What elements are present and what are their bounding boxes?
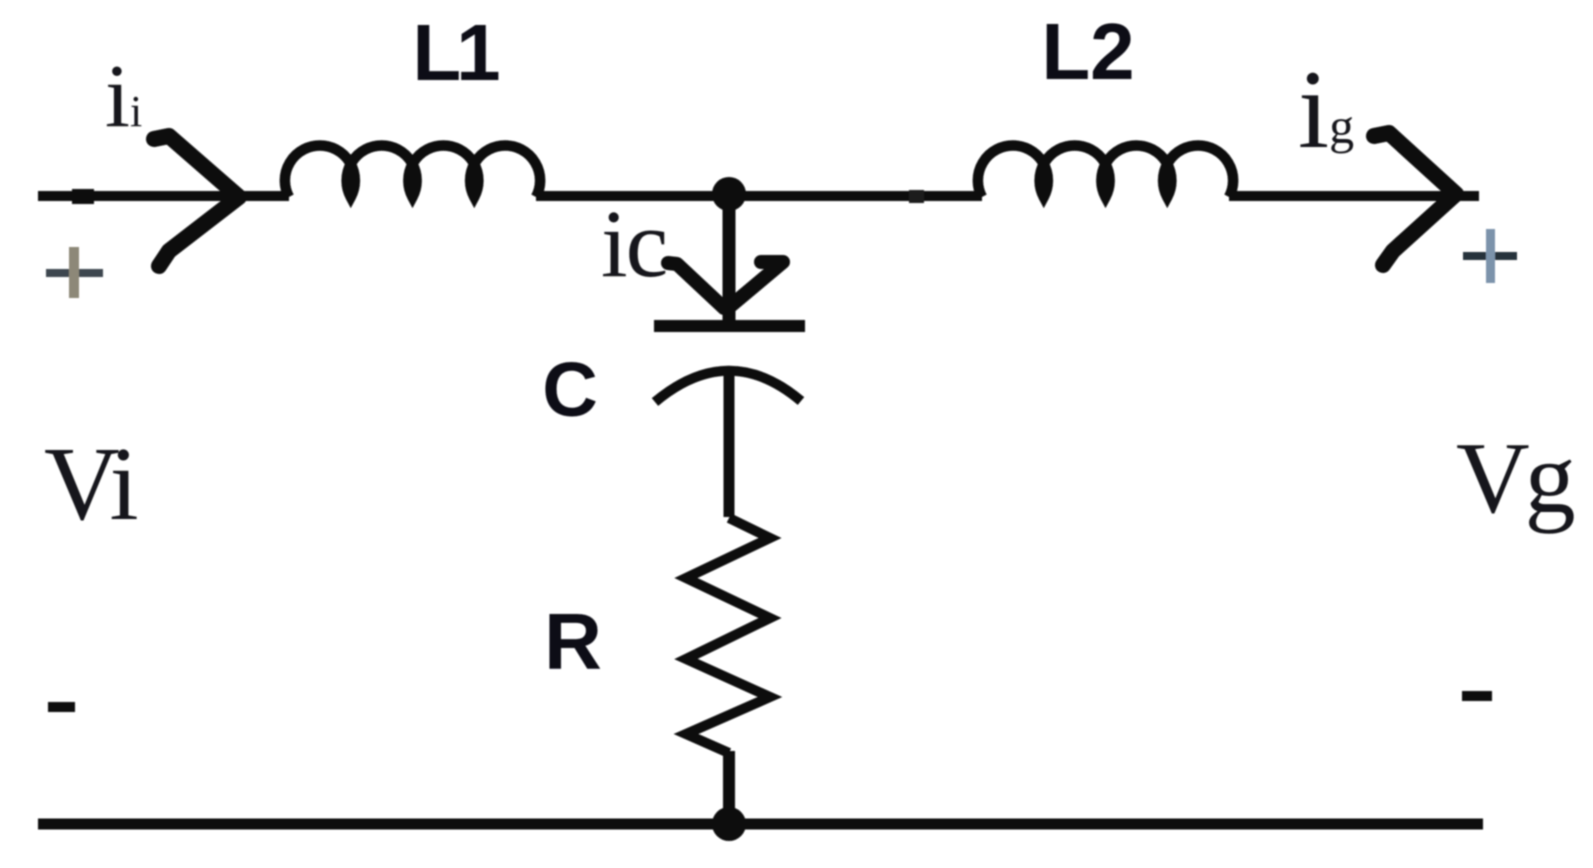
svg-text:ii: ii: [105, 47, 142, 146]
svg-text:L2: L2: [1041, 7, 1134, 96]
svg-text:C: C: [542, 347, 598, 433]
svg-text:R: R: [544, 597, 602, 686]
svg-text:Vi: Vi: [44, 425, 138, 542]
svg-text:Vg: Vg: [1456, 422, 1575, 535]
svg-text:L1: L1: [412, 8, 499, 97]
svg-text:ic: ic: [601, 190, 666, 297]
svg-text:ig: ig: [1298, 48, 1354, 172]
